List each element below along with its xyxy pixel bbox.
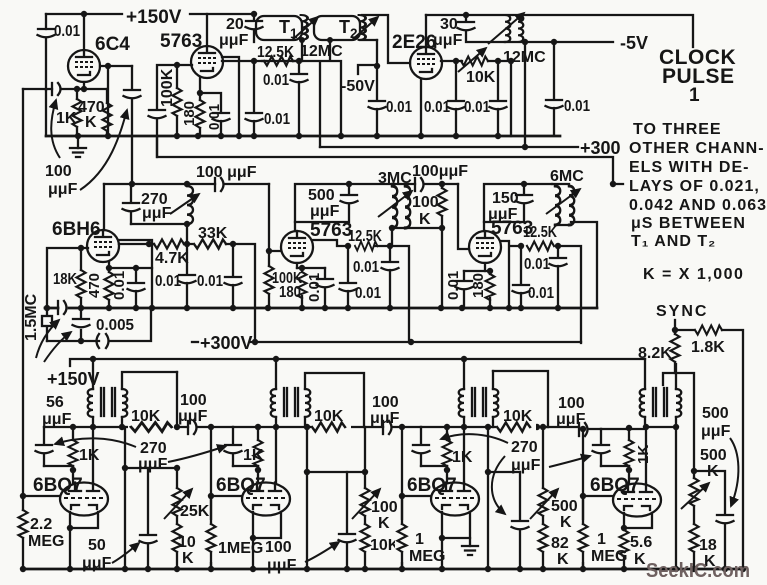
wire grid rail stage4 bottom <box>582 429 584 569</box>
svg-text:20: 20 <box>226 16 244 33</box>
wire grid box bottom #1 <box>44 465 73 467</box>
svg-text:500: 500 <box>702 405 729 422</box>
T2 tuning coil <box>359 15 366 40</box>
wire stage1 left rail / 2.2MEG <box>20 493 26 499</box>
svg-text:270: 270 <box>511 439 538 456</box>
svg-text:270: 270 <box>140 440 167 457</box>
svg-text:1: 1 <box>597 531 606 548</box>
wire 5763#1 plate/screen out <box>222 57 299 61</box>
wire +300 line (y=147) <box>320 146 578 148</box>
transformer secondary #4 <box>675 364 677 427</box>
node bus dots row3 <box>44 305 50 311</box>
svg-text:10: 10 <box>178 534 196 551</box>
transformer core #4 <box>653 388 667 416</box>
svg-text:1.8K: 1.8K <box>691 339 725 356</box>
svg-text:2E26: 2E26 <box>392 32 436 53</box>
wire cathode bypass row <box>109 267 152 269</box>
svg-text:5763: 5763 <box>160 31 202 52</box>
resistor 470K <box>106 89 108 136</box>
6MC tuning arrow <box>546 189 580 214</box>
capacitor 270uuF tank <box>130 184 132 224</box>
capacitor 0.01 mid a <box>179 275 196 283</box>
svg-text:+300V: +300V <box>200 333 253 353</box>
svg-text:0.01: 0.01 <box>264 111 290 128</box>
resistor 1K grid #2 <box>257 427 259 470</box>
transformer T1 box <box>256 16 302 40</box>
resistor 470 <box>108 268 110 307</box>
svg-text:10K: 10K <box>466 69 496 86</box>
svg-text:0.01: 0.01 <box>263 72 289 89</box>
resistor 1K grid #1 <box>72 427 74 470</box>
+150V supply rail top <box>46 13 254 15</box>
svg-text:12.5K: 12.5K <box>257 44 294 61</box>
svg-text:8.2K: 8.2K <box>638 345 672 362</box>
svg-text:10K: 10K <box>503 408 533 425</box>
node screen row <box>453 58 459 64</box>
capacitor 0.01 cathode #2 <box>324 268 326 308</box>
svg-text:6MC: 6MC <box>550 168 584 185</box>
capacitor 0.01 screen a <box>455 61 457 136</box>
svg-text:K: K <box>634 551 646 568</box>
svg-text:MEG: MEG <box>28 533 64 550</box>
wire coupling row #2 <box>307 471 365 473</box>
transformer core #3 <box>472 388 486 416</box>
wire 6C4 grid row y=89 <box>23 88 107 90</box>
wire secondary return rail #4 <box>675 427 677 569</box>
wire screen rail to bus right end <box>510 61 512 136</box>
wire +150V rail (y=359) <box>70 359 645 366</box>
svg-text:25K: 25K <box>180 503 210 520</box>
wire 12.5K right to screen rail <box>390 246 409 342</box>
resistor 100K tank <box>441 184 443 228</box>
capacitor 100uuF coupling 2-3 <box>382 421 384 434</box>
capacitor grid #4 <box>600 429 602 466</box>
capacitor 0.01 mid b <box>225 277 242 285</box>
svg-text:LAYS OF 0.021,: LAYS OF 0.021, <box>629 178 760 195</box>
svg-text:SYNC: SYNC <box>656 303 708 320</box>
svg-text:1K: 1K <box>452 449 473 466</box>
node grid/1K <box>74 86 80 92</box>
svg-text:+300: +300 <box>580 138 621 158</box>
wire 5763#1 plate top <box>206 14 208 46</box>
capacitor on crystal tie <box>73 319 90 327</box>
resistor 10K #3 <box>496 420 536 434</box>
node bottom bus dots <box>20 566 26 572</box>
capacitor 500uuF <box>694 471 725 569</box>
resistor 10K lower #2 <box>364 552 366 569</box>
svg-text:18K: 18K <box>53 271 77 288</box>
resistor 500K variable #3 <box>543 427 548 524</box>
tube 5763 #1 <box>191 46 223 78</box>
svg-text:1.5MC: 1.5MC <box>23 293 40 341</box>
12MC tuning arrow <box>488 13 524 44</box>
resistor 1MEG #4 <box>576 520 590 562</box>
capacitor 0.005 series <box>97 334 100 348</box>
resistor 82K #3 <box>542 552 544 569</box>
wire screen rail to bus <box>238 61 240 136</box>
T1 tuning coil <box>301 15 308 40</box>
node: top rail junction at 6C4 plate <box>81 11 87 17</box>
svg-text:3MC: 3MC <box>378 170 412 187</box>
tube 6BQ7 #2 <box>242 483 290 516</box>
node 12.5K left <box>251 58 257 64</box>
capacitor 150uuF <box>484 184 524 222</box>
wire plate feed stage2 (y=184 right segment) <box>295 184 458 231</box>
transformer secondary #3 <box>492 371 494 427</box>
bottom ground bus (y=569) <box>23 568 743 571</box>
capacitor 0.01 screen b <box>497 61 499 136</box>
capacitor 0.01 #3b <box>520 246 522 308</box>
svg-text:ELS WITH DE-: ELS WITH DE- <box>629 159 749 176</box>
node 12.5K right <box>296 58 302 64</box>
svg-text:0.01: 0.01 <box>564 98 590 115</box>
svg-text:12MC: 12MC <box>300 43 343 60</box>
wire tank to screen row <box>186 224 188 243</box>
svg-text:K: K <box>378 515 390 532</box>
svg-text:180: 180 <box>470 273 487 298</box>
wire plate pin #1 <box>92 427 94 483</box>
resistor 100K grid leak #2 <box>268 251 270 308</box>
wire cathode loop #4 <box>624 513 652 528</box>
wire +300V line (y=342) <box>250 341 581 343</box>
svg-text:0.01: 0.01 <box>206 104 223 130</box>
svg-text:K: K <box>182 550 194 567</box>
wire T2 top to 2E26 grid <box>362 15 410 63</box>
resistor 5.6K #4 <box>623 528 625 569</box>
resistor 8.2K SYNC <box>674 320 676 330</box>
tank tuning arrow <box>170 194 199 214</box>
svg-text:0.01: 0.01 <box>155 273 181 290</box>
svg-text:100: 100 <box>180 392 207 409</box>
svg-text:K: K <box>557 551 569 568</box>
inductor 1.5MC tank coil <box>187 186 193 224</box>
wire 6MC tank bottom <box>555 222 597 308</box>
resistor 100K <box>176 65 178 136</box>
svg-text:100: 100 <box>372 394 399 411</box>
capacitor 0.01 #2b <box>389 246 391 308</box>
svg-text:TO THREE: TO THREE <box>633 121 722 138</box>
node 30uuF <box>463 12 469 18</box>
wire plate feed stage3 (y=184) <box>484 184 552 231</box>
svg-text:470: 470 <box>86 273 103 298</box>
svg-text:18: 18 <box>699 537 717 554</box>
ground bus top row y=136 <box>46 135 560 138</box>
transformer core #2 <box>284 388 298 416</box>
capacitor 0.01 on -50V rail <box>376 40 378 136</box>
ground symbol below 6C4 <box>77 136 79 148</box>
svg-text:μμF: μμF <box>556 411 586 428</box>
svg-text:1K: 1K <box>635 445 652 464</box>
svg-text:μμF: μμF <box>178 408 208 425</box>
svg-text:MEG: MEG <box>409 548 445 565</box>
svg-text:6BH6: 6BH6 <box>52 219 101 240</box>
svg-text:μμF: μμF <box>488 206 518 223</box>
wire 6C4 plate out <box>100 65 132 67</box>
resistor 180 #3 <box>489 271 491 308</box>
svg-text:0.01: 0.01 <box>353 259 379 276</box>
svg-text:1MEG: 1MEG <box>218 540 263 557</box>
tube 6C4 <box>68 50 100 82</box>
capacitor 0.01 #3a <box>557 246 559 308</box>
svg-text:0.042 AND 0.063: 0.042 AND 0.063 <box>629 197 767 214</box>
capacitor grid #3 <box>420 427 422 466</box>
wire cathode down <box>83 82 85 89</box>
svg-text:10K: 10K <box>314 408 344 425</box>
svg-text:100: 100 <box>265 539 292 556</box>
node T2 bottom row <box>327 37 333 43</box>
resistor 1MEG #3 <box>395 520 409 562</box>
wire T2 bottom to -50V tap <box>360 39 377 41</box>
capacitor 100uuF in grid bus <box>57 301 59 314</box>
tube 5763 #3 <box>469 231 501 263</box>
svg-text:0.01: 0.01 <box>355 285 381 302</box>
node cathode <box>81 86 87 92</box>
svg-text:0.01: 0.01 <box>54 23 80 40</box>
capacitor 100uuF grid (to clock line) <box>149 110 166 118</box>
svg-text:OTHER CHANN-: OTHER CHANN- <box>629 140 765 157</box>
wire 270uuF row #1 <box>125 467 177 469</box>
capacitor grid #2 <box>232 427 234 466</box>
resistor 180 cathode <box>199 78 201 93</box>
svg-text:0.01: 0.01 <box>111 271 128 300</box>
capacitor 100uuF coupling 1-2 <box>187 421 189 434</box>
wire secondary return rail #3 <box>487 427 489 569</box>
wire cathode bypass <box>200 93 221 136</box>
node -5V line taps <box>522 39 528 45</box>
capacitor 100uuF stage2 <box>346 472 348 569</box>
wire bus left riser <box>45 90 47 136</box>
node 500uuF <box>346 181 352 187</box>
resistor 12.5K #3 <box>527 242 554 251</box>
capacitor 20uuF <box>251 11 257 17</box>
transformer secondary #1 <box>122 372 177 427</box>
svg-text:1K: 1K <box>243 447 264 464</box>
annotation arrow to plate cap <box>80 110 127 190</box>
svg-text:4.7K: 4.7K <box>155 250 189 267</box>
transformer secondary #2 <box>305 373 364 427</box>
wire 12.5K right to +300 <box>558 246 581 343</box>
svg-text:100K: 100K <box>159 68 176 107</box>
svg-text:+150V: +150V <box>126 7 182 28</box>
svg-text:5.6: 5.6 <box>630 534 652 551</box>
capacitor 30uuF <box>466 15 505 42</box>
svg-text:50: 50 <box>88 537 106 554</box>
svg-text:μμF: μμF <box>267 557 297 574</box>
wire cathode loop #2 <box>253 512 281 538</box>
resistor 10K #1 <box>131 423 172 432</box>
3MC tank coils <box>392 186 397 228</box>
svg-text:MEG: MEG <box>591 548 627 565</box>
svg-text:6C4: 6C4 <box>95 34 130 55</box>
svg-text:μμF: μμF <box>433 32 463 49</box>
wire 3MC tank bottom <box>392 227 442 229</box>
resistor 180 #2 <box>301 268 303 308</box>
wire grid rail stage2 bottom <box>210 427 212 569</box>
node 150uuF <box>521 181 527 187</box>
svg-text:-5V: -5V <box>620 33 648 53</box>
wire 6BH6 screen jog <box>119 240 152 308</box>
svg-text:12.5K: 12.5K <box>523 224 557 241</box>
wire 6BH6 grid row <box>47 248 88 308</box>
resistor 18K #4 <box>693 552 695 569</box>
svg-text:0.01: 0.01 <box>424 99 450 116</box>
ground symbol stage3 <box>462 546 478 555</box>
annotation arrow to grid cap <box>51 100 60 158</box>
resistor 18K <box>80 248 82 307</box>
tube 5763 #2 <box>281 231 313 263</box>
-5V line <box>505 41 613 43</box>
wire cathode 5763#2 <box>296 263 298 268</box>
capacitor 100uuF 6C4 grid (series) <box>51 83 53 95</box>
capacitor 100uuF coupling 3-4 <box>578 423 580 436</box>
svg-text:500: 500 <box>308 187 335 204</box>
capacitor 0.01 cathode <box>213 113 230 121</box>
resistor 1.8K <box>675 330 743 569</box>
svg-text:SeekIC.com: SeekIC.com <box>646 560 750 582</box>
node T1 bottom <box>299 37 305 43</box>
wire grid rail stage3 bottom <box>401 427 403 569</box>
svg-text:56: 56 <box>46 394 64 411</box>
svg-text:+150V: +150V <box>47 369 100 389</box>
svg-text:100 μμF: 100 μμF <box>196 164 257 181</box>
capacitor 100uuF series 3MC <box>414 178 416 191</box>
svg-text:6BQ7: 6BQ7 <box>216 475 266 496</box>
svg-text:0.01: 0.01 <box>524 256 550 273</box>
svg-text:0.01: 0.01 <box>464 99 490 116</box>
wire 6BH6 cathode <box>108 262 110 268</box>
svg-text:1: 1 <box>689 85 700 106</box>
wire stage4 box <box>663 373 694 471</box>
svg-text:K: K <box>85 114 97 131</box>
svg-text:180: 180 <box>181 101 198 126</box>
wire +300 drop from -5V row <box>524 42 526 147</box>
svg-text:K: K <box>560 514 572 531</box>
capacitor 50uuF <box>147 468 149 569</box>
svg-text:0.01: 0.01 <box>445 271 462 300</box>
svg-text:1K: 1K <box>56 110 77 127</box>
svg-text:0.005: 0.005 <box>96 317 134 334</box>
transformer T primary #3 <box>463 359 465 483</box>
svg-text:μμF: μμF <box>42 411 72 428</box>
svg-text:100: 100 <box>412 194 439 211</box>
wire secondary return rail #1 <box>124 427 126 569</box>
12MC slug coil pair <box>505 15 510 42</box>
svg-text:0.01: 0.01 <box>197 273 223 290</box>
wire tank bottom <box>131 223 187 225</box>
transformer T primary #4 <box>645 359 646 483</box>
node 100K top <box>439 181 445 187</box>
wire clock distribution line (y=157) <box>157 136 623 184</box>
svg-text:6BQ7: 6BQ7 <box>33 475 83 496</box>
resistor 4.7K <box>154 240 184 249</box>
svg-text:1: 1 <box>415 531 424 548</box>
svg-text:T: T <box>279 17 290 37</box>
node grid <box>174 62 180 68</box>
wire grid rail stage3 <box>458 184 469 249</box>
svg-text:μμF: μμF <box>142 205 172 222</box>
capacitor 0.01 at 12.5K right <box>298 61 300 136</box>
transformer T2 box <box>314 16 360 40</box>
svg-text:10K: 10K <box>131 408 161 425</box>
node plate <box>105 63 111 69</box>
svg-text:K: K <box>419 211 431 228</box>
wire -50V bracket <box>358 65 377 74</box>
resistor 1K grid #3 <box>446 427 448 470</box>
svg-text:82: 82 <box>551 535 569 552</box>
wire stage1 top row y=427 <box>44 426 233 428</box>
capacitor 500uuF <box>295 184 349 222</box>
resistor 500K variable #4 <box>693 471 695 524</box>
resistor 1K grid #4 <box>628 428 630 470</box>
svg-text:T₁ AND T₂: T₁ AND T₂ <box>631 233 716 250</box>
svg-text:33K: 33K <box>198 225 228 242</box>
svg-text:6BQ7: 6BQ7 <box>407 475 457 496</box>
wire 100K grid rail <box>157 65 177 157</box>
svg-text:μμF: μμF <box>219 32 249 49</box>
svg-text:μμF: μμF <box>48 181 78 198</box>
svg-text:-50V: -50V <box>341 78 375 95</box>
resistor 12.5K #2 <box>375 245 390 247</box>
svg-text:μμF: μμF <box>82 555 112 572</box>
wire crystal bottom / 0.005 loop <box>47 308 151 341</box>
resistor 10K #2 <box>311 420 351 434</box>
grid bus row y=308 <box>45 307 597 310</box>
wire 2E26 plate top <box>425 15 427 47</box>
wire secondary box right <box>176 372 178 427</box>
svg-text:μμF: μμF <box>701 423 731 440</box>
svg-text:1K: 1K <box>79 447 100 464</box>
svg-text:μμF: μμF <box>511 457 541 474</box>
node 500K top <box>691 468 697 474</box>
svg-text:0.01: 0.01 <box>386 99 412 116</box>
wire plate row 5763#2 <box>313 240 348 246</box>
top rail right segment <box>426 15 693 47</box>
wire stage2 top row <box>233 426 421 428</box>
transformer core #1 <box>101 388 115 416</box>
wire stage3 top row <box>421 427 601 429</box>
crystal 1.5MC <box>46 308 48 341</box>
wire grid rail stage2 <box>269 184 281 251</box>
resistor 12.5K <box>262 60 299 62</box>
wire 6C4 plate to rail <box>83 14 85 48</box>
svg-text:μμF: μμF <box>370 410 400 427</box>
svg-text:6BQ7: 6BQ7 <box>590 475 640 496</box>
transformer T primary #2 <box>275 359 277 483</box>
wire coupling row #3 <box>488 471 520 473</box>
resistor 10K lower #1 <box>176 552 178 569</box>
resistor 1MEG #2 <box>204 520 218 562</box>
svg-text:0.01: 0.01 <box>306 273 323 302</box>
resistor 100K variable #2 <box>364 427 366 524</box>
svg-text:100: 100 <box>45 163 72 180</box>
svg-text:μμF: μμF <box>138 456 168 473</box>
capacitor 270uuF stage3 <box>519 472 521 569</box>
tube 2E26 <box>410 47 442 79</box>
svg-text:μS BETWEEN: μS BETWEEN <box>631 215 746 232</box>
capacitor 100uuF series (y=184) <box>214 178 216 191</box>
tube 6BH6 <box>87 230 119 262</box>
wire cathode #3 with ground <box>442 512 470 538</box>
capacitor 100uuF coupling (plate to tank) <box>131 66 133 184</box>
wire plate row 5763#3 <box>501 241 521 308</box>
svg-text:12.5K: 12.5K <box>348 228 382 245</box>
svg-text:100: 100 <box>371 499 398 516</box>
capacitor 56uuF grid #1 <box>43 427 45 466</box>
capacitor 0.01 #2a <box>347 246 349 308</box>
wire 33K junction down <box>187 244 233 308</box>
wire cathode 5763#3 <box>484 263 486 271</box>
wire screen row 4.7K/33K <box>119 244 255 342</box>
